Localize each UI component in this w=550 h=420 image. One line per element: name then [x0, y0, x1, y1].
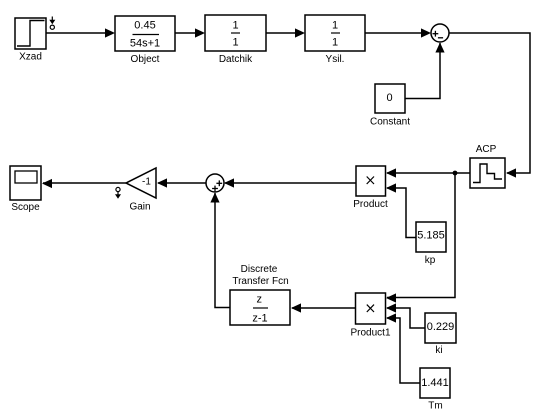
- svg-text:Ysil.: Ysil.: [326, 54, 345, 65]
- svg-text:1: 1: [332, 19, 338, 31]
- svg-text:1: 1: [232, 19, 238, 31]
- svg-text:Product1: Product1: [350, 328, 390, 339]
- svg-text:54s+1: 54s+1: [130, 38, 160, 50]
- svg-text:-1: -1: [142, 177, 151, 188]
- svg-text:0.45: 0.45: [134, 20, 155, 32]
- svg-text:Gain: Gain: [129, 202, 150, 213]
- svg-text:Tm: Tm: [428, 401, 442, 412]
- svg-text:5.185: 5.185: [417, 230, 445, 242]
- svg-text:1: 1: [232, 37, 238, 49]
- svg-text:Discrete: Discrete: [241, 264, 278, 275]
- svg-text:Xzad: Xzad: [19, 52, 42, 63]
- svg-text:Datchik: Datchik: [219, 54, 253, 65]
- svg-text:ki: ki: [435, 345, 442, 356]
- svg-text:kp: kp: [425, 255, 436, 266]
- svg-text:Product: Product: [353, 199, 388, 210]
- svg-text:1.441: 1.441: [421, 377, 449, 389]
- svg-text:z-1: z-1: [252, 313, 267, 325]
- svg-text:0.229: 0.229: [427, 321, 455, 333]
- svg-text:ACP: ACP: [476, 144, 497, 155]
- svg-text:Constant: Constant: [370, 117, 410, 128]
- svg-text:1: 1: [332, 37, 338, 49]
- svg-text:0: 0: [386, 92, 392, 104]
- svg-text:Transfer Fcn: Transfer Fcn: [232, 276, 288, 287]
- svg-text:z: z: [256, 294, 262, 306]
- svg-text:Object: Object: [131, 54, 160, 65]
- svg-text:Scope: Scope: [11, 202, 40, 213]
